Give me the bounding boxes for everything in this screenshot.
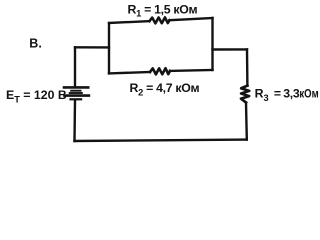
wire top branch left segment (109, 21, 150, 23)
wire parallel-box left edge (108, 23, 110, 73)
battery plate short 3 (69, 98, 82, 100)
resistor R3 (241, 86, 249, 103)
wire right vertical lower (245, 103, 248, 140)
svg-text:R3: R3 (255, 87, 269, 103)
wire mid-right tap (213, 48, 248, 50)
wire bottom branch left segment (109, 72, 150, 73)
svg-text:3,3: 3,3 (283, 87, 300, 101)
wire top branch right segment (170, 18, 213, 20)
svg-text:R1 = 1,5 кОм: R1 = 1,5 кОм (128, 2, 198, 18)
battery plate short 2 (69, 92, 83, 94)
svg-text:R2 = 4,7 кОм: R2 = 4,7 кОм (130, 81, 200, 97)
wire left vertical upper (74, 47, 76, 86)
wire bottom branch right segment (170, 69, 213, 72)
resistor R2 (150, 68, 170, 74)
svg-text:кОм: кОм (299, 87, 318, 101)
battery plate long 1 (63, 86, 90, 89)
battery plate long 2 (63, 94, 90, 97)
battery plate short 1 (70, 90, 81, 92)
svg-text:ET = 120 В: ET = 120 В (6, 88, 67, 104)
wire parallel-box right edge (211, 18, 213, 70)
svg-text:=: = (274, 87, 281, 101)
battery ET (63, 87, 90, 99)
resistor R1 (150, 17, 170, 23)
svg-text:В.: В. (29, 37, 42, 51)
wire right vertical upper (246, 49, 249, 85)
wire bottom (75, 140, 247, 141)
wire mid-left tap (75, 46, 109, 49)
wire left vertical lower (73, 100, 76, 141)
